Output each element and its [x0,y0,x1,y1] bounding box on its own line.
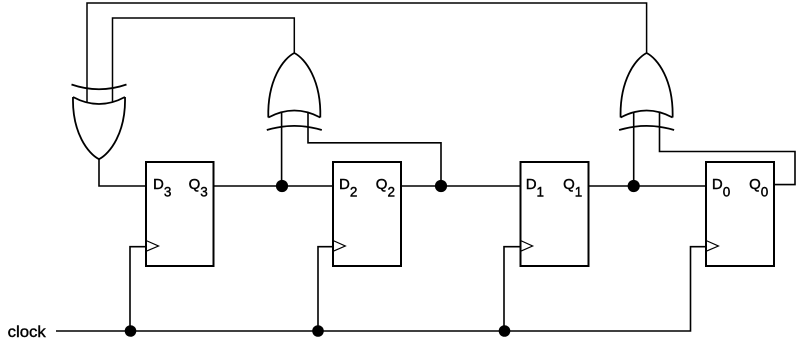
svg-text:clock: clock [8,324,47,341]
